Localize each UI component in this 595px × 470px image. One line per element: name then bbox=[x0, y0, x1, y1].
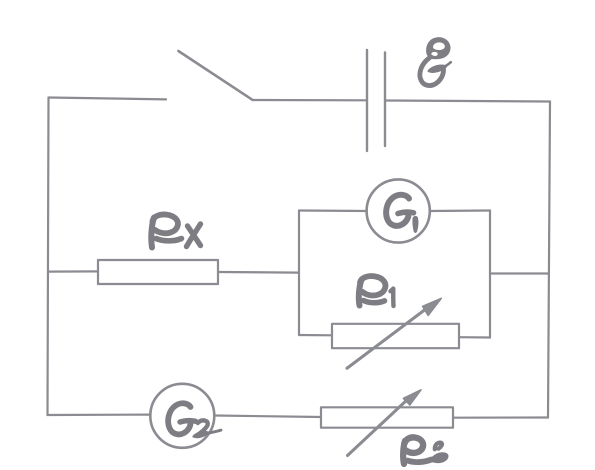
wire parallel block right vertical bbox=[489, 211, 491, 338]
label EMF script letter bbox=[420, 37, 451, 85]
wire top branch to G1 bbox=[299, 209, 367, 212]
wire capacitor to top right corner bbox=[386, 101, 550, 102]
wire right vertical bbox=[548, 102, 550, 418]
wire left vertical bbox=[48, 98, 49, 416]
label G1 bbox=[386, 195, 418, 233]
switch S (open blade) bbox=[178, 51, 252, 100]
wire top left segment bbox=[49, 98, 167, 100]
wire Rx to parallel block bbox=[218, 271, 299, 274]
capacitor right plate bbox=[384, 53, 386, 147]
wire bottom left segment bbox=[48, 414, 151, 417]
galvanometer G2 circle bbox=[150, 384, 214, 448]
wire R2 box to bottom right corner bbox=[453, 416, 548, 418]
rheostat R2 arrow bbox=[348, 390, 422, 456]
label G2 bbox=[168, 403, 221, 437]
wire switch to capacitor bbox=[253, 99, 366, 102]
rheostat R1 box bbox=[332, 324, 459, 348]
wire block to outer right (middle) bbox=[490, 272, 549, 274]
capacitor left plate bbox=[366, 50, 368, 151]
wire middle left (node to Rx) bbox=[48, 270, 98, 272]
wire G1 to right vertical of block bbox=[430, 209, 490, 212]
rheostat R1 arrow bbox=[347, 298, 441, 368]
label R1 bbox=[359, 276, 394, 306]
wire parallel block left vertical bbox=[298, 211, 300, 336]
wire R1 box to block right vertical bbox=[459, 336, 490, 338]
wire G2 to R2 box bbox=[214, 416, 321, 418]
resistor Rx box bbox=[98, 260, 218, 284]
wire block to R1 box left bbox=[299, 334, 332, 336]
label R2 bbox=[403, 437, 448, 464]
rheostat R2 box bbox=[321, 407, 453, 427]
galvanometer G1 circle bbox=[367, 179, 430, 242]
label Rx bbox=[151, 214, 200, 247]
